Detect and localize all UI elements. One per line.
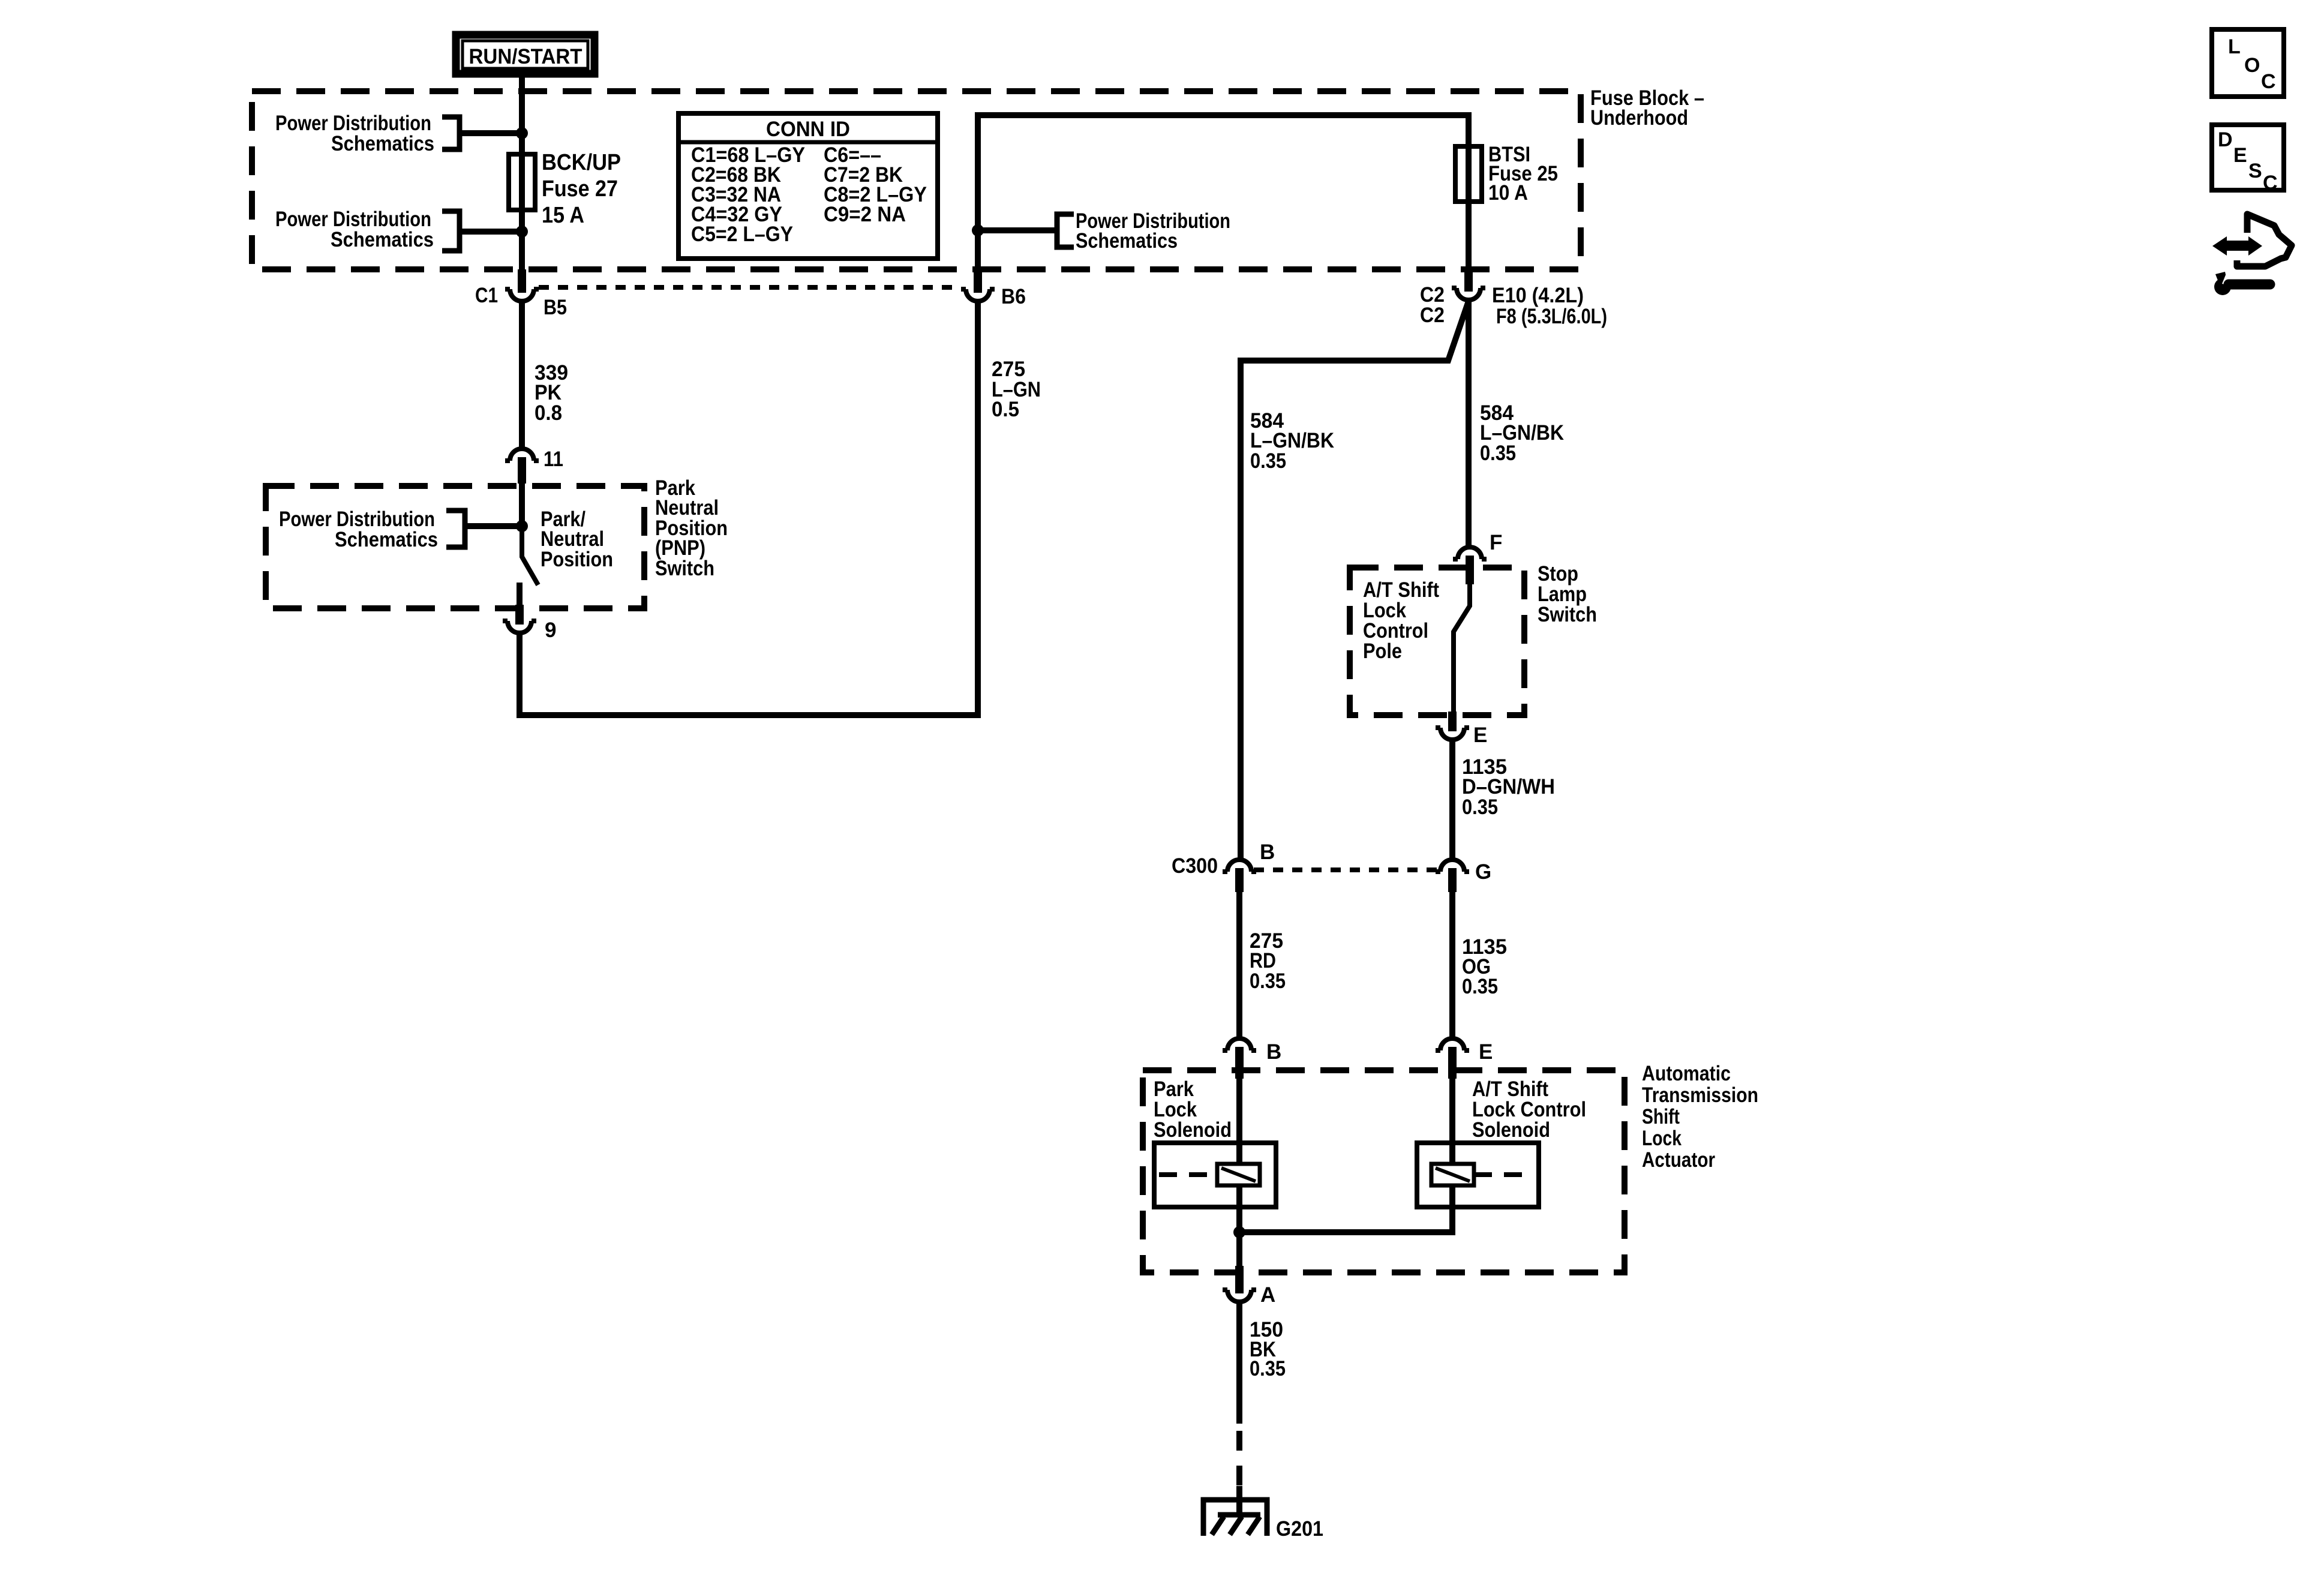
svg-text:F: F <box>1490 531 1502 554</box>
label 150 BK 0.35 <box>1250 1318 1286 1380</box>
svg-text:15 A: 15 A <box>542 203 584 228</box>
icon LOC box <box>2212 29 2284 97</box>
svg-text:Automatic: Automatic <box>1642 1062 1731 1085</box>
label fuse 27 <box>542 150 621 228</box>
connector C300 pin G <box>1436 860 1469 892</box>
connector pin E of actuator <box>1436 1038 1469 1079</box>
label power distribution schematics (PNP) <box>279 508 438 551</box>
wire pin 11 to switch node <box>519 480 525 527</box>
wire 275 RD 0.35 <box>1236 892 1242 1038</box>
svg-text:0.35: 0.35 <box>1480 442 1516 465</box>
connector C2 pin E10/F8 <box>1452 269 1485 300</box>
wire B6 riser and top horizontal to BTSI <box>978 115 1469 269</box>
wire 339 PK 0.8 <box>519 301 525 449</box>
connector C1 pin B5 <box>505 269 539 301</box>
wire A/T solenoid down to common run <box>1239 1185 1452 1232</box>
svg-text:0.8: 0.8 <box>535 401 562 425</box>
svg-text:D: D <box>2218 128 2233 151</box>
label power distribution schematics (right) <box>1076 209 1230 253</box>
svg-text:Schematics: Schematics <box>331 228 434 251</box>
wire RUN/START to fuse 27 and C1 <box>519 74 525 269</box>
wire E10 to stop lamp switch (584) <box>1466 300 1472 547</box>
wire dotted connector C300 line <box>1254 867 1438 872</box>
fuse block label <box>1590 86 1704 130</box>
svg-text:Transmission: Transmission <box>1642 1083 1758 1107</box>
svg-text:0.35: 0.35 <box>1250 449 1286 473</box>
icon double arrow <box>2212 236 2262 256</box>
label A/T shift lock control solenoid <box>1472 1077 1586 1142</box>
svg-text:RUN/START: RUN/START <box>469 45 582 68</box>
PNP switch dashed box <box>266 486 644 608</box>
label C2 C2 <box>1420 283 1445 327</box>
svg-text:11: 11 <box>544 448 563 471</box>
switch blade PNP <box>522 526 538 585</box>
svg-text:E: E <box>1479 1040 1493 1064</box>
power source box RUN/START <box>456 35 594 74</box>
wire 1135 D-GN/WH <box>1449 740 1455 860</box>
svg-text:0.35: 0.35 <box>1250 969 1286 993</box>
connector pin 9 of PNP switch <box>503 605 536 633</box>
connector pin A of actuator <box>1223 1266 1256 1302</box>
svg-text:A: A <box>1260 1283 1275 1307</box>
wire common node to pin A <box>1236 1232 1242 1266</box>
wire BTSI to E10 <box>1466 202 1472 269</box>
wire 150 BK 0.35 <box>1236 1302 1242 1424</box>
actuator dashed box <box>1143 1070 1625 1272</box>
svg-text:Actuator: Actuator <box>1642 1148 1715 1172</box>
svg-text:Position: Position <box>541 548 613 571</box>
label 584 L-GN/BK 0.35 (right) <box>1480 401 1564 465</box>
svg-text:Schematics: Schematics <box>1076 229 1178 253</box>
svg-text:B: B <box>1266 1040 1281 1064</box>
svg-text:C300: C300 <box>1172 854 1218 878</box>
wire dotted connector C1 line <box>539 285 961 290</box>
label automatic transmission shift lock actuator <box>1642 1062 1758 1172</box>
label A/T shift lock control pole <box>1363 578 1439 663</box>
svg-text:CONN ID: CONN ID <box>766 118 850 141</box>
icon DESC box <box>2212 125 2284 194</box>
fuse F25 BTSI 10A <box>1455 146 1482 202</box>
svg-text:G: G <box>1475 860 1491 884</box>
svg-text:C2: C2 <box>1420 304 1445 327</box>
svg-text:L: L <box>2228 35 2241 58</box>
stop lamp switch dashed box <box>1350 568 1524 715</box>
svg-text:BCK/UP: BCK/UP <box>542 150 621 175</box>
svg-text:Lock: Lock <box>1642 1127 1682 1150</box>
label park lock solenoid <box>1154 1077 1232 1142</box>
svg-text:Underhood: Underhood <box>1590 106 1688 130</box>
svg-text:Schematics: Schematics <box>335 528 438 551</box>
svg-text:C5=2 L–GY: C5=2 L–GY <box>691 223 793 246</box>
node solenoid common <box>1233 1226 1245 1238</box>
bracket power distribution schematics (PNP) <box>446 511 465 547</box>
bracket power distribution schematics (second) <box>442 211 460 251</box>
svg-text:E: E <box>2233 144 2247 167</box>
svg-text:Switch: Switch <box>655 557 714 580</box>
svg-text:0.5: 0.5 <box>992 398 1019 421</box>
svg-text:E10 (4.2L): E10 (4.2L) <box>1492 284 1584 307</box>
svg-text:C: C <box>2263 172 2278 194</box>
svg-text:C1: C1 <box>475 284 498 307</box>
svg-text:0.35: 0.35 <box>1462 975 1498 998</box>
connector pin F of stop lamp switch <box>1453 547 1487 584</box>
label 339 PK 0.8 <box>535 361 568 425</box>
node junction to power distribution (second) <box>516 226 528 238</box>
wire B pin to park lock solenoid <box>1236 1079 1242 1164</box>
svg-text:G201: G201 <box>1276 1517 1323 1541</box>
svg-text:0.35: 0.35 <box>1250 1357 1286 1380</box>
node junction to power distribution (top) <box>516 127 528 139</box>
connector pin E of stop lamp switch <box>1436 712 1469 740</box>
wire branch to power distribution schematics (top) <box>460 130 522 136</box>
wire branch to power distribution schematics (right) <box>978 227 1057 233</box>
CONN ID table <box>678 113 938 259</box>
connector pin B of actuator <box>1223 1038 1256 1079</box>
label park neutral position (PNP) switch <box>655 476 728 580</box>
svg-text:S: S <box>2248 160 2262 182</box>
fuse block underhood dashed box <box>252 91 1581 269</box>
connector C300 pin B <box>1223 860 1256 892</box>
wire park solenoid down to common node <box>1236 1185 1242 1232</box>
ground G201 <box>1203 1486 1267 1536</box>
label 1135 D-GN/WH 0.35 <box>1462 755 1555 819</box>
label stop lamp switch <box>1538 562 1597 626</box>
wire pin 9 down and across to B6 riser <box>520 301 978 715</box>
bracket power distribution schematics (top) <box>442 117 460 149</box>
label 275 RD 0.35 <box>1250 929 1286 993</box>
svg-text:Fuse 27: Fuse 27 <box>542 176 618 202</box>
connector pin 11 of PNP switch <box>505 449 539 484</box>
svg-text:C: C <box>2261 70 2276 93</box>
bracket power distribution schematics (right) <box>1057 214 1074 247</box>
icon part outline <box>2237 214 2292 266</box>
wire branch to power distribution schematics (second) <box>460 229 522 235</box>
wire E10 diagonal and run to C300 (584 left) <box>1241 301 1469 860</box>
svg-text:Schematics: Schematics <box>331 132 434 155</box>
wire branch to power distribution schematics (PNP) <box>465 523 522 529</box>
svg-text:B6: B6 <box>1001 285 1026 308</box>
svg-text:O: O <box>2244 54 2260 77</box>
wire E pin to A/T solenoid <box>1449 1079 1455 1164</box>
label park/neutral position (inside box) <box>541 508 613 571</box>
svg-text:Solenoid: Solenoid <box>1154 1118 1232 1142</box>
label power distribution schematics (second) <box>275 208 434 251</box>
svg-text:B: B <box>1260 840 1275 864</box>
node junction to power distribution (right) <box>972 224 984 236</box>
fuse F27 BCK/UP 15A <box>509 154 535 210</box>
node switch common <box>516 520 528 532</box>
svg-text:Switch: Switch <box>1538 603 1597 626</box>
connector C1 pin B6 <box>961 269 995 301</box>
svg-text:9: 9 <box>545 619 556 642</box>
wire dashed to ground <box>1236 1431 1242 1486</box>
svg-text:Pole: Pole <box>1363 640 1402 663</box>
svg-text:0.35: 0.35 <box>1462 795 1498 819</box>
label power distribution schematics (top) <box>275 112 434 155</box>
wire switch lower contact <box>517 583 523 605</box>
solenoid L1 park lock <box>1154 1143 1276 1207</box>
svg-text:Shift: Shift <box>1642 1105 1680 1128</box>
svg-text:B5: B5 <box>544 296 567 319</box>
svg-text:Solenoid: Solenoid <box>1472 1118 1550 1142</box>
wire 1135 OG 0.35 <box>1449 892 1455 1038</box>
label 584 L-GN/BK 0.35 (left) <box>1250 409 1334 473</box>
label 1135 OG 0.35 <box>1462 935 1507 998</box>
svg-text:C9=2 NA: C9=2 NA <box>824 203 906 226</box>
svg-text:E: E <box>1473 724 1487 747</box>
svg-text:10 A: 10 A <box>1488 181 1528 205</box>
svg-text:F8 (5.3L/6.0L): F8 (5.3L/6.0L) <box>1496 305 1607 328</box>
switch blade stop lamp <box>1454 584 1470 712</box>
label 275 L-GN 0.5 <box>992 358 1041 421</box>
solenoid L2 A/T shift lock control <box>1417 1143 1539 1207</box>
icon wrench <box>2214 271 2270 295</box>
label fuse 25 <box>1488 143 1558 205</box>
